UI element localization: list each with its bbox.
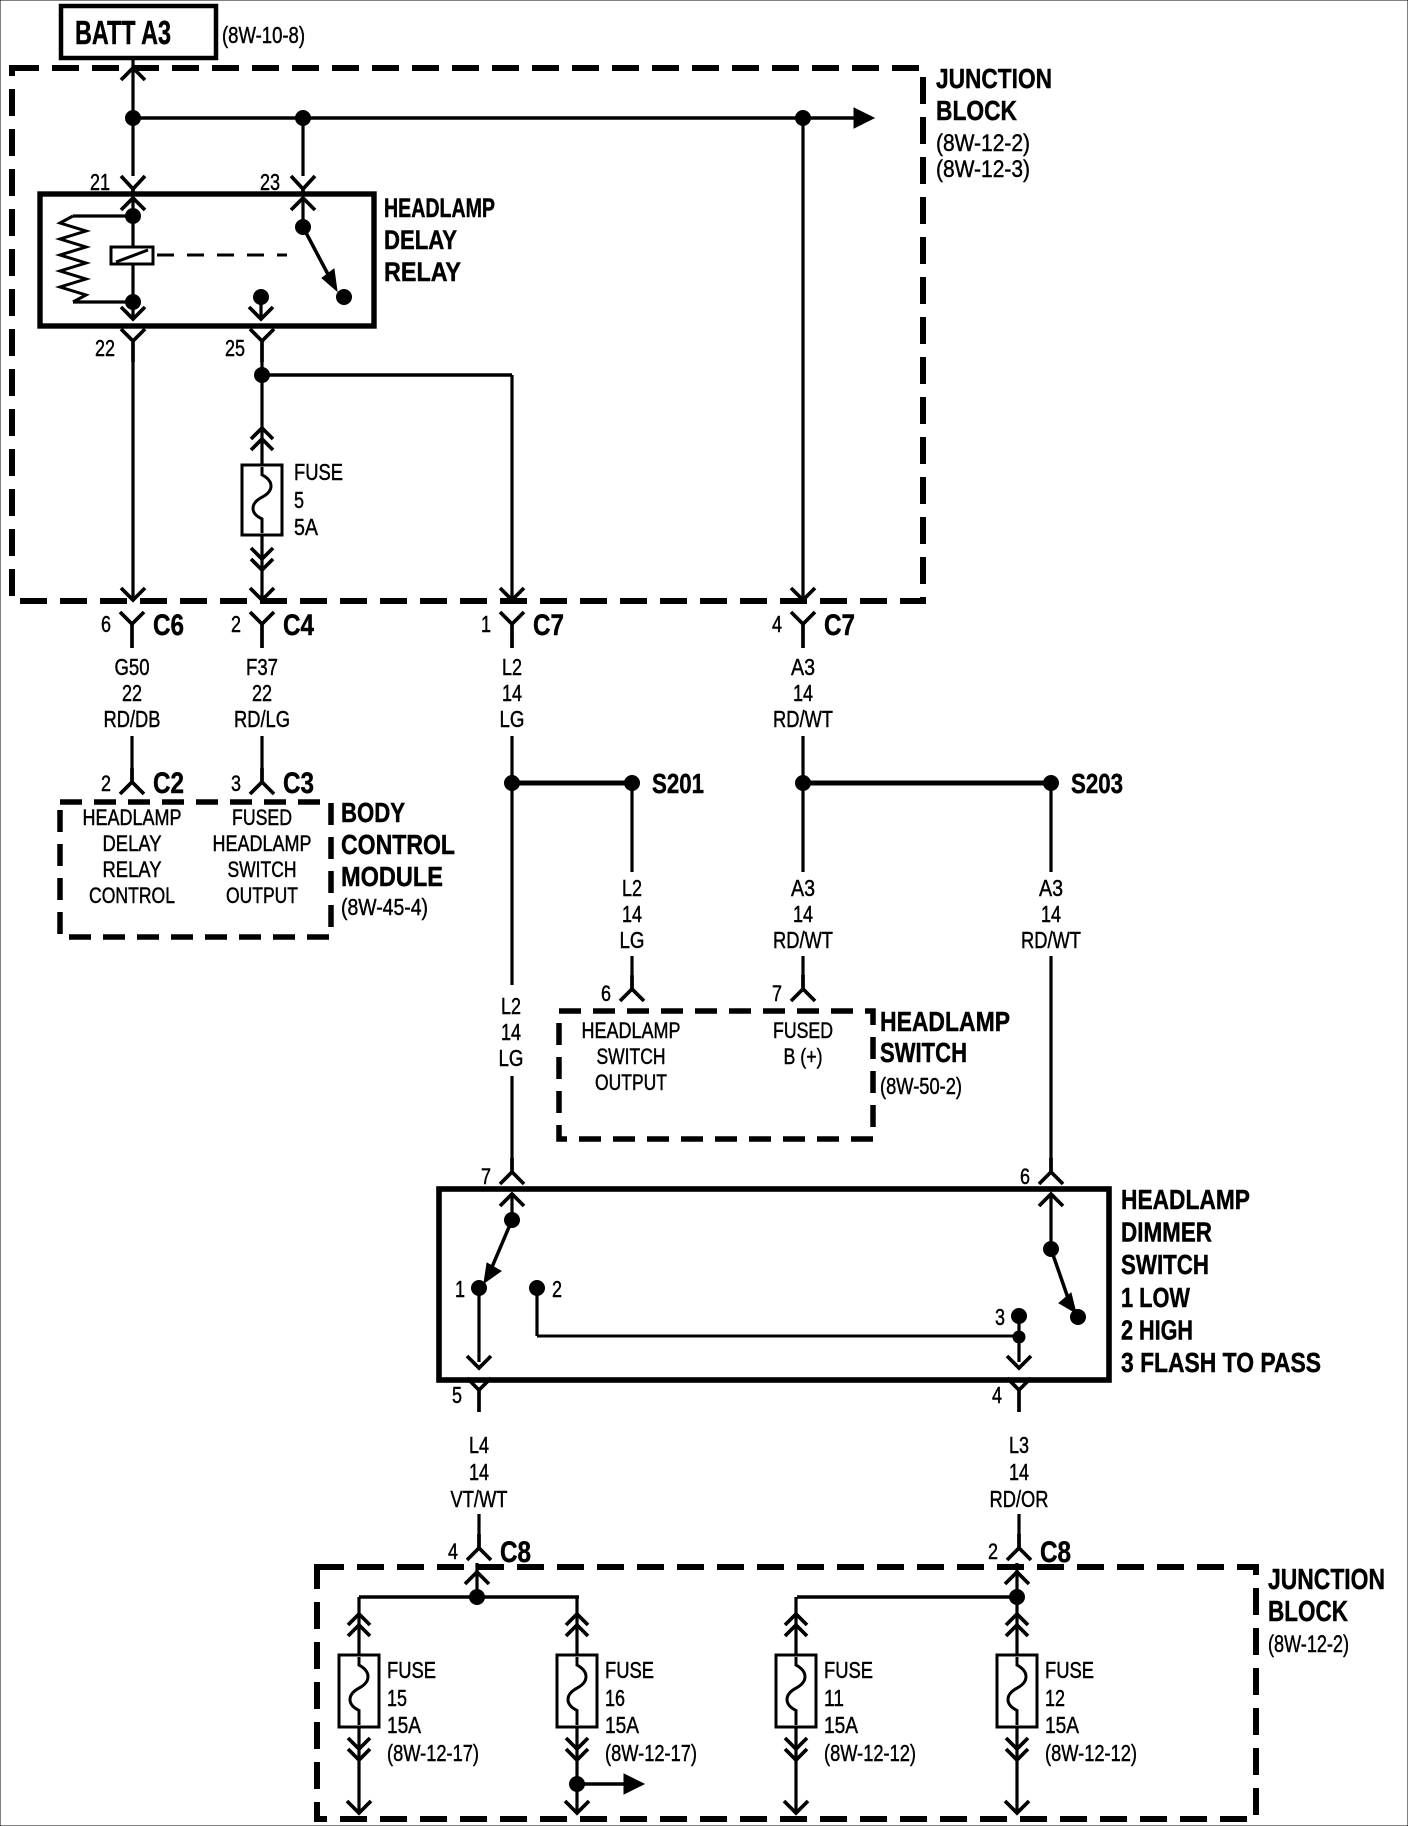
svg-text:A3: A3: [1039, 875, 1063, 901]
svg-text:23: 23: [260, 169, 280, 195]
svg-text:RELAY: RELAY: [384, 257, 461, 287]
svg-text:RD/LG: RD/LG: [234, 706, 290, 732]
svg-text:1 LOW: 1 LOW: [1121, 1282, 1190, 1313]
svg-text:HEADLAMP: HEADLAMP: [880, 1006, 1010, 1037]
svg-text:14: 14: [501, 1019, 521, 1045]
svg-text:CONTROL: CONTROL: [341, 829, 455, 860]
svg-text:(8W-10-8): (8W-10-8): [222, 22, 305, 48]
svg-text:2 HIGH: 2 HIGH: [1121, 1314, 1193, 1345]
svg-text:MODULE: MODULE: [341, 861, 443, 892]
svg-text:15A: 15A: [605, 1712, 640, 1738]
svg-text:6: 6: [101, 611, 111, 637]
svg-text:SWITCH: SWITCH: [880, 1037, 967, 1068]
svg-text:6: 6: [1020, 1164, 1030, 1189]
svg-text:12: 12: [1045, 1685, 1065, 1711]
svg-text:1: 1: [481, 611, 491, 637]
svg-text:3: 3: [231, 771, 241, 796]
svg-text:5: 5: [452, 1382, 462, 1408]
svg-text:4: 4: [992, 1382, 1002, 1408]
svg-text:14: 14: [622, 901, 642, 927]
svg-text:(8W-12-2): (8W-12-2): [936, 130, 1030, 157]
svg-text:HEADLAMP: HEADLAMP: [1121, 1184, 1250, 1215]
svg-text:B (+): B (+): [784, 1044, 823, 1069]
svg-text:HEADLAMP: HEADLAMP: [83, 805, 182, 830]
svg-text:G50: G50: [115, 654, 150, 680]
svg-text:DELAY: DELAY: [103, 831, 162, 856]
svg-text:FUSE: FUSE: [387, 1657, 436, 1683]
svg-text:14: 14: [502, 680, 522, 706]
svg-text:C2: C2: [153, 767, 184, 800]
svg-text:L2: L2: [622, 875, 642, 901]
svg-text:JUNCTION: JUNCTION: [1268, 1564, 1385, 1596]
svg-text:RD/WT: RD/WT: [773, 927, 833, 953]
svg-text:FUSED: FUSED: [773, 1018, 833, 1043]
svg-text:(8W-45-4): (8W-45-4): [341, 894, 428, 920]
svg-text:DIMMER: DIMMER: [1121, 1217, 1212, 1248]
svg-text:2: 2: [231, 611, 241, 637]
svg-text:RD/WT: RD/WT: [1021, 927, 1081, 953]
svg-text:BLOCK: BLOCK: [936, 95, 1017, 126]
svg-text:SWITCH: SWITCH: [597, 1044, 666, 1069]
svg-text:C4: C4: [283, 609, 314, 642]
svg-text:22: 22: [95, 335, 115, 361]
svg-text:25: 25: [225, 335, 245, 361]
svg-text:3: 3: [995, 1304, 1005, 1330]
svg-text:14: 14: [1041, 901, 1061, 927]
svg-text:(8W-12-17): (8W-12-17): [387, 1740, 479, 1766]
svg-text:15A: 15A: [1045, 1712, 1080, 1738]
svg-text:BODY: BODY: [341, 797, 405, 828]
svg-text:LG: LG: [500, 706, 525, 732]
svg-text:SWITCH: SWITCH: [1121, 1249, 1209, 1280]
svg-text:FUSED: FUSED: [232, 805, 292, 830]
svg-text:21: 21: [90, 169, 110, 195]
svg-text:LG: LG: [620, 927, 645, 953]
svg-text:3 FLASH TO PASS: 3 FLASH TO PASS: [1121, 1347, 1321, 1378]
svg-text:6: 6: [601, 981, 611, 1006]
svg-text:FUSE: FUSE: [294, 459, 343, 485]
svg-text:LG: LG: [499, 1045, 524, 1071]
svg-text:1: 1: [455, 1276, 465, 1302]
svg-text:C6: C6: [153, 609, 184, 642]
svg-text:15A: 15A: [387, 1712, 422, 1738]
svg-text:22: 22: [122, 680, 142, 706]
svg-text:(8W-12-12): (8W-12-12): [824, 1740, 916, 1766]
svg-text:L2: L2: [501, 993, 521, 1019]
svg-text:A3: A3: [791, 875, 815, 901]
svg-text:CONTROL: CONTROL: [89, 883, 175, 908]
svg-text:14: 14: [1009, 1459, 1029, 1485]
svg-text:(8W-12-17): (8W-12-17): [605, 1740, 697, 1766]
svg-text:C7: C7: [533, 609, 564, 642]
svg-text:L3: L3: [1009, 1432, 1029, 1458]
svg-text:7: 7: [772, 981, 782, 1006]
svg-text:DELAY: DELAY: [384, 225, 457, 255]
svg-text:C3: C3: [283, 767, 314, 800]
svg-text:OUTPUT: OUTPUT: [226, 883, 298, 908]
svg-text:2: 2: [988, 1539, 998, 1564]
svg-text:C7: C7: [824, 609, 855, 642]
svg-text:RD/WT: RD/WT: [773, 706, 833, 732]
svg-text:11: 11: [824, 1685, 844, 1711]
svg-text:14: 14: [469, 1459, 489, 1485]
svg-text:A3: A3: [791, 654, 815, 680]
svg-text:5: 5: [294, 487, 304, 513]
svg-text:BLOCK: BLOCK: [1268, 1596, 1348, 1628]
svg-text:4: 4: [448, 1539, 458, 1564]
svg-text:OUTPUT: OUTPUT: [595, 1070, 667, 1095]
svg-text:S203: S203: [1071, 768, 1123, 799]
svg-text:14: 14: [793, 680, 813, 706]
svg-text:L4: L4: [469, 1432, 489, 1458]
svg-text:SWITCH: SWITCH: [228, 857, 297, 882]
svg-text:RD/DB: RD/DB: [104, 706, 161, 732]
svg-text:RD/OR: RD/OR: [990, 1486, 1049, 1512]
svg-text:JUNCTION: JUNCTION: [936, 63, 1052, 94]
svg-text:HEADLAMP: HEADLAMP: [213, 831, 312, 856]
svg-text:FUSE: FUSE: [1045, 1657, 1094, 1683]
svg-text:HEADLAMP: HEADLAMP: [384, 193, 495, 223]
svg-text:VT/WT: VT/WT: [451, 1486, 508, 1512]
svg-text:F37: F37: [246, 654, 278, 680]
svg-text:BATT A3: BATT A3: [75, 14, 171, 51]
svg-text:16: 16: [605, 1685, 625, 1711]
svg-text:2: 2: [101, 771, 111, 796]
svg-text:S201: S201: [652, 768, 704, 799]
svg-text:15A: 15A: [824, 1712, 859, 1738]
svg-text:(8W-50-2): (8W-50-2): [880, 1073, 962, 1099]
svg-text:22: 22: [252, 680, 272, 706]
svg-text:HEADLAMP: HEADLAMP: [582, 1018, 681, 1043]
svg-text:(8W-12-2): (8W-12-2): [1268, 1631, 1349, 1658]
svg-text:15: 15: [387, 1685, 407, 1711]
svg-text:7: 7: [481, 1164, 491, 1189]
svg-text:L2: L2: [502, 654, 522, 680]
svg-text:FUSE: FUSE: [605, 1657, 654, 1683]
svg-text:2: 2: [552, 1276, 562, 1302]
svg-text:5A: 5A: [294, 514, 319, 540]
svg-text:14: 14: [793, 901, 813, 927]
svg-text:4: 4: [772, 611, 782, 637]
svg-text:RELAY: RELAY: [103, 857, 162, 882]
svg-text:(8W-12-3): (8W-12-3): [936, 156, 1030, 183]
svg-text:FUSE: FUSE: [824, 1657, 873, 1683]
svg-text:(8W-12-12): (8W-12-12): [1045, 1740, 1137, 1766]
